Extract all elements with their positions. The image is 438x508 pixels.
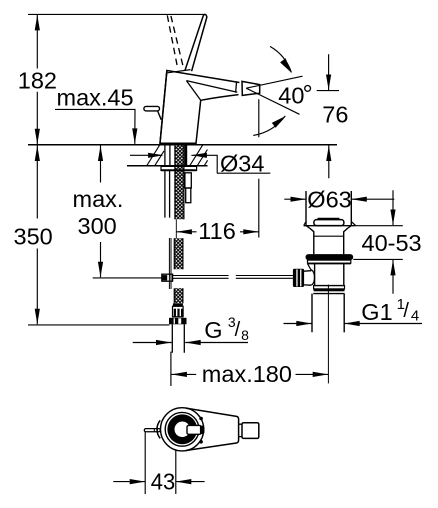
G3/8 tube (172, 324, 184, 353)
faucet body outline (160, 70, 239, 144)
dimension 43 lines (113, 481, 204, 483)
svg-text:4: 4 (411, 308, 419, 325)
arrow 43 right (176, 479, 192, 484)
pop-up rod knob on body (144, 106, 161, 119)
arrow 76 top (326, 75, 331, 91)
arrow 40-53 bottom (390, 260, 395, 276)
arrow G3/8 left (156, 340, 172, 345)
arrow arc upper (280, 58, 292, 73)
svg-text:116: 116 (198, 218, 235, 244)
arrow 116 left (176, 229, 192, 234)
pop-up rod horizontal linkage (162, 274, 293, 281)
svg-text:40-53: 40-53 (362, 230, 422, 256)
tailpipe (312, 294, 344, 333)
arrow 350 top (35, 146, 40, 162)
arrow 76 bottom (326, 146, 331, 162)
bottom view middle ring (165, 412, 199, 446)
spout aerator block (242, 81, 260, 95)
braided hose column (lower) (174, 238, 183, 269)
max.300 dimension line (100, 146, 102, 278)
svg-text:40: 40 (278, 82, 304, 108)
svg-text:/: / (403, 300, 409, 322)
valve rim line (304, 225, 356, 227)
valve rim extension line (356, 225, 403, 227)
knurled knob (293, 269, 304, 287)
svg-text:/: / (235, 319, 241, 341)
max.180 left extension line (170, 352, 172, 386)
flange extension line (353, 258, 403, 260)
svg-text:43: 43 (151, 469, 176, 495)
side port (304, 271, 311, 286)
dimension 182 line (36, 14, 38, 144)
svg-text:76: 76 (322, 102, 348, 128)
hose end ferrule (173, 303, 183, 306)
G3/8 connection nut (169, 318, 187, 325)
dimension 116 line (176, 231, 258, 233)
centerline in hose break (175, 220, 177, 239)
bottom view aerator block (242, 423, 259, 439)
arrow max.180 left (171, 372, 187, 377)
valve cup walls (Ø63) (306, 191, 351, 225)
valve plug (314, 220, 344, 226)
pop-up vertical rod (lower) (169, 238, 171, 289)
arrow 43 left (130, 479, 146, 484)
arrow G1 1/4 left (296, 321, 312, 326)
drain centerline (327, 285, 329, 384)
svg-text:max.180: max.180 (202, 361, 292, 387)
svg-text:182: 182 (18, 67, 57, 93)
shank: threaded/braided hose column (upper) (175, 145, 185, 219)
dimension G1 1/4 line (284, 323, 423, 325)
dimension G3/8 line (133, 342, 248, 344)
svg-text:Ø34: Ø34 (220, 150, 264, 176)
svg-text:max.45: max.45 (57, 85, 134, 111)
valve body (315, 264, 344, 286)
svg-text:max.: max. (73, 186, 124, 212)
bottom view screw dots (199, 417, 203, 421)
lever (dashed, alternate position) (167, 15, 183, 66)
arrow 350 bottom (35, 309, 40, 325)
bottom view cartridge ring (black donut) (167, 414, 197, 444)
degree symbol (305, 86, 311, 92)
arrow Ø34 right (191, 153, 207, 158)
svg-text:G1: G1 (361, 299, 392, 325)
arrow max.45 (132, 128, 137, 144)
svg-text:300: 300 (78, 213, 117, 239)
deck bottom line (127, 165, 208, 167)
dimension max.180 line (171, 373, 328, 375)
arrow max.300 top (98, 146, 103, 162)
bottom view rod boss bump (157, 420, 160, 438)
40-degree arc upper (270, 46, 291, 72)
bottom reference line (350) (28, 324, 169, 326)
top reference line (lever height) (28, 13, 205, 15)
valve neck (306, 226, 351, 254)
valve coupling rings (315, 285, 344, 287)
bottom view joystick tip (200, 426, 205, 435)
dimension 350 line (36, 145, 38, 324)
lever (solid, tilted position) (185, 14, 207, 71)
arrow G3/8 right (185, 340, 201, 345)
43 extension lines (145, 432, 176, 494)
arrow Ø34 left (148, 153, 164, 158)
deck hatching right (190, 145, 208, 165)
rod fitting (162, 274, 173, 281)
mounting washer (161, 166, 197, 170)
svg-text:G: G (204, 317, 222, 343)
mounting nut (185, 173, 191, 188)
arrow 182 bottom (35, 129, 40, 145)
arrow Ø63 left (291, 197, 307, 202)
arrow max.180 right (313, 372, 329, 377)
arrow arc lower (272, 116, 286, 128)
spout outlet extension line (258, 99, 260, 237)
deck hatching left (147, 145, 164, 165)
dimension Ø34 leader (130, 155, 270, 173)
arrow 182 top (35, 15, 40, 31)
bottom view joystick stub (187, 425, 201, 434)
deck top line (28, 144, 337, 146)
dimension Ø63 line (284, 198, 394, 200)
max.45 leader (55, 109, 135, 143)
svg-text:350: 350 (14, 223, 53, 249)
arrow max.300 bottom (98, 262, 103, 278)
arrow 116 right (243, 229, 258, 234)
arrow 40-53 top (390, 210, 395, 226)
dimension 40-53 arrows lines (392, 190, 394, 294)
bottom view neck lines (239, 424, 242, 436)
bottom view outer circle (161, 408, 204, 451)
svg-text:8: 8 (241, 327, 249, 343)
svg-text:Ø63: Ø63 (307, 186, 351, 212)
bottom view pop-up rod stub (144, 429, 160, 432)
dimension 76 arrows lines (317, 54, 339, 178)
arrow Ø63 right (351, 197, 367, 202)
shank: pop-up rod tube (165, 145, 170, 217)
arrow G1 1/4 right (344, 321, 360, 326)
valve flange (306, 254, 354, 260)
40-degree construction lines (246, 76, 302, 114)
bottom view body outline (186, 408, 239, 450)
max.300 bottom reference line (93, 277, 162, 279)
shank right wall (185, 145, 188, 165)
rod segments (173, 276, 229, 279)
40-degree arc lower (253, 116, 285, 135)
